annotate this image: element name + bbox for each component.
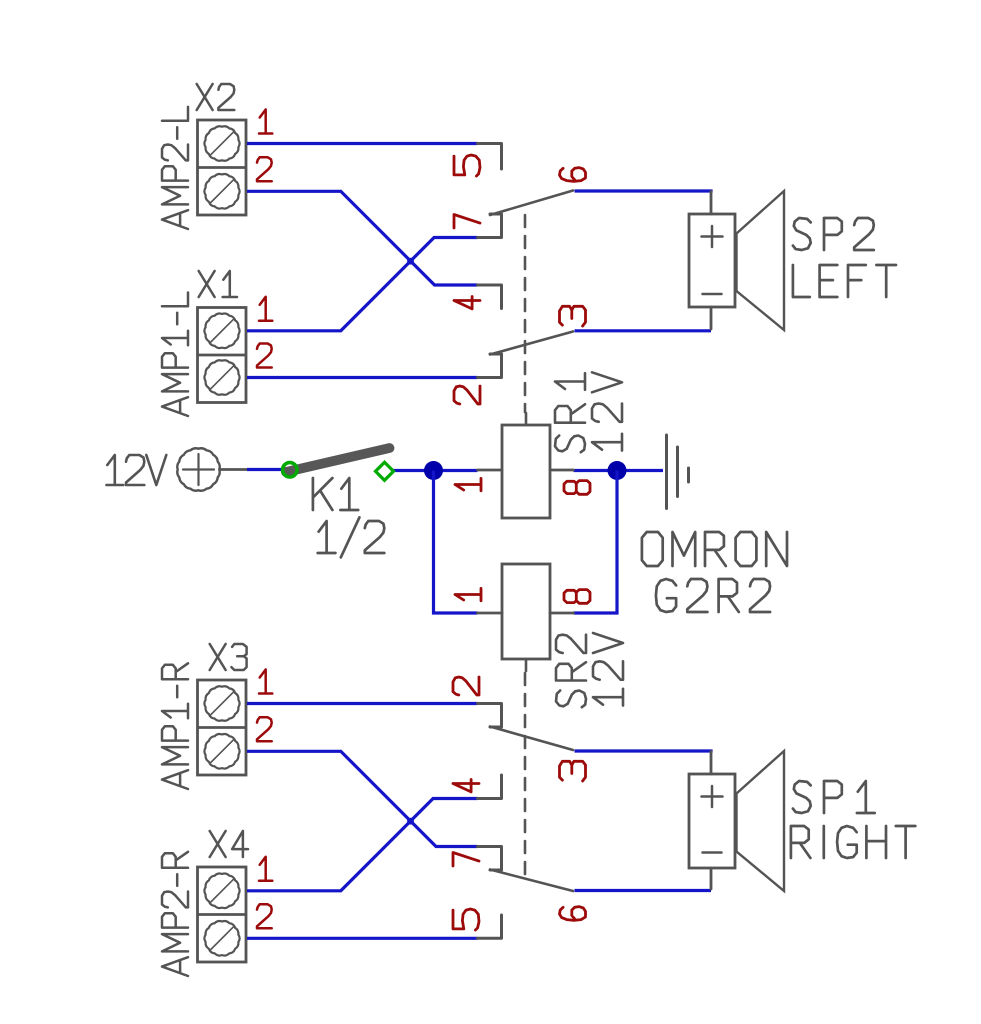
terminal block X2 (AMP2-L) bbox=[198, 120, 247, 215]
relay contact pin 2 (common) bbox=[478, 354, 502, 378]
relay contact pin 2b (common) bbox=[478, 704, 502, 728]
label OMRON bbox=[642, 532, 787, 566]
label G2R2 bbox=[656, 579, 770, 612]
X3 pin number 2 bbox=[257, 717, 272, 741]
relay coil SR1 bbox=[502, 425, 550, 518]
12V supply pin bbox=[220, 468, 247, 471]
wire X4-2 to relay K1B pin 5 bbox=[247, 937, 478, 940]
relay contact arm 2-3 bbox=[490, 332, 573, 355]
relay K1A actuator dashed line bbox=[524, 215, 527, 412]
terminal block X4 (AMP2-R) bbox=[198, 867, 247, 962]
wire X2-1 to relay K1A pin 5 bbox=[247, 142, 478, 145]
wire relay pin 6 to SP2 + bbox=[575, 189, 713, 192]
relay K1B actuator dashed line bbox=[524, 673, 527, 880]
relay contact pin 5b bbox=[478, 915, 502, 938]
pin number 4b bbox=[453, 780, 479, 792]
pin number 2 bbox=[454, 386, 480, 404]
X2 pin number 2 bbox=[257, 157, 272, 181]
label K1 bbox=[313, 478, 358, 510]
wire relay pin 3 to SP2 - bbox=[575, 329, 712, 332]
relay coil SR2 bbox=[502, 564, 550, 659]
pin number 6 bbox=[560, 168, 586, 182]
switch K1 right contact bbox=[376, 462, 394, 480]
SP1 cone bbox=[737, 751, 785, 891]
relay contact pin 4b bbox=[478, 775, 502, 799]
X4 pin number 1 bbox=[259, 857, 272, 881]
relay contact arm 2-3 bottom bbox=[490, 727, 573, 751]
relay contact pin 4 bbox=[478, 285, 502, 309]
relay contact pin 5 bbox=[478, 144, 502, 170]
SP2 minus terminal bbox=[703, 293, 722, 296]
label SR1 12V bbox=[592, 372, 622, 450]
SP2 cone bbox=[737, 191, 785, 330]
relay contact arm 7-6 bottom bbox=[490, 870, 573, 892]
SP1 top pin bbox=[710, 752, 713, 775]
label X1 bbox=[199, 271, 237, 297]
SR2 pin number 1 bbox=[455, 588, 481, 600]
node wire crossing bottom bbox=[407, 818, 414, 825]
SR1 actuator stub bbox=[525, 413, 528, 425]
wire relay pin 6 to SP1 - bbox=[575, 889, 712, 892]
label SR1 bbox=[555, 373, 585, 452]
label LEFT bbox=[793, 265, 896, 297]
label RIGHT bbox=[791, 826, 915, 858]
X3 pin number 1 bbox=[259, 670, 272, 694]
wire node A down to SR2 pin 1 bbox=[434, 471, 478, 614]
wire SR1 pin 8 to ground node bbox=[574, 469, 664, 472]
SP2 bottom pin bbox=[710, 307, 713, 329]
pin number 2b bbox=[453, 677, 479, 695]
label SP1 bbox=[793, 781, 875, 813]
12V supply symbol bbox=[177, 448, 219, 490]
SR1 pin number 8 bbox=[564, 481, 590, 495]
label SR2 bbox=[556, 635, 586, 708]
label 1/2 bbox=[318, 517, 385, 557]
relay contact arm 7-6 bbox=[490, 191, 573, 216]
wire 12V to switch K1 bbox=[247, 468, 283, 471]
pin number 7b bbox=[453, 853, 479, 867]
wire X1-1 to relay K1A pin 7 bbox=[247, 238, 478, 331]
label SR2 12V bbox=[593, 633, 623, 706]
node wire crossing top bbox=[407, 258, 414, 265]
wire X4-1 to relay K1B pin 4 bbox=[247, 799, 478, 891]
pin number 6b bbox=[560, 907, 586, 921]
speaker SP2 body bbox=[689, 214, 735, 307]
label 12V bbox=[107, 455, 167, 485]
label X3 bbox=[210, 644, 247, 670]
SP2 top pin bbox=[710, 192, 713, 215]
wire X3-2 to relay K1B pin 7 bbox=[247, 751, 478, 846]
label AMP2-L bbox=[162, 107, 188, 229]
wire X3-1 to relay K1B pin 2 bbox=[247, 702, 478, 705]
SR2 pin number 8 bbox=[564, 590, 590, 604]
switch K1 bar bbox=[286, 448, 390, 472]
node junction left bbox=[424, 461, 443, 480]
speaker SP1 body bbox=[689, 774, 735, 868]
terminal block X1 (AMP1-L) bbox=[198, 308, 247, 403]
X1 pin number 1 bbox=[259, 297, 272, 321]
SR1 pin 1 lead bbox=[478, 469, 503, 472]
label SP2 bbox=[793, 218, 874, 250]
label AMP1-L bbox=[162, 293, 188, 417]
SR1 pin 8 lead bbox=[550, 469, 574, 472]
pin number 7 bbox=[454, 215, 480, 229]
label X4 bbox=[210, 831, 248, 857]
ground symbol bbox=[665, 435, 668, 509]
pin number 5b bbox=[453, 909, 479, 930]
SR2 pin 8 lead bbox=[550, 612, 574, 615]
switch K1 left contact bbox=[283, 463, 297, 477]
SR2 actuator stub bbox=[525, 659, 528, 671]
label X2 bbox=[197, 84, 235, 110]
SP1 plus terminal bbox=[702, 795, 723, 798]
SP1 minus terminal bbox=[703, 851, 722, 854]
wire relay pin 3 to SP1 + bbox=[575, 749, 713, 752]
SP1 bottom pin bbox=[710, 868, 713, 889]
wire switch K1 to node A bbox=[393, 469, 478, 472]
terminal block X3 (AMP1-R) bbox=[198, 680, 247, 775]
pin number 5 bbox=[454, 155, 480, 176]
X4 pin number 2 bbox=[257, 904, 272, 928]
wire X1-2 to relay K1A pin 2 bbox=[247, 376, 478, 379]
wire X2-2 to relay K1A pin 4 bbox=[247, 191, 478, 285]
node junction right bbox=[608, 461, 627, 480]
pin number 3b bbox=[560, 761, 586, 781]
relay contact pin 7b (common) bbox=[478, 847, 502, 871]
relay contact pin 7 (common) bbox=[478, 214, 502, 238]
pin number 3 bbox=[560, 306, 586, 326]
label AMP2-R bbox=[162, 852, 188, 976]
SR1 pin number 1 bbox=[455, 478, 481, 490]
pin number 4 bbox=[454, 297, 480, 309]
wire right node down to SR2 pin 8 bbox=[574, 471, 618, 614]
label AMP1-R bbox=[162, 663, 188, 789]
X2 pin number 1 bbox=[259, 110, 272, 134]
SP2 plus terminal bbox=[702, 235, 723, 238]
SR2 pin 1 lead bbox=[478, 612, 503, 615]
X1 pin number 2 bbox=[257, 344, 272, 368]
